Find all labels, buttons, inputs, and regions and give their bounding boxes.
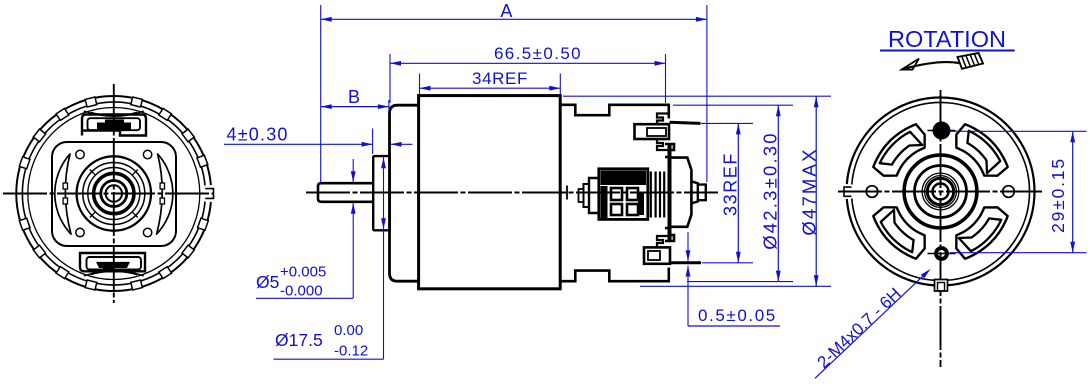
centerline vertical (right view) — [940, 90, 942, 367]
top terminal — [635, 124, 670, 139]
svg-text:Ø5: Ø5 — [256, 272, 279, 292]
dimension Ø47MAX — [563, 96, 831, 286]
svg-text:+0.005: +0.005 — [280, 264, 326, 281]
inner circle — [852, 102, 1030, 280]
ring tick marks — [133, 170, 138, 175]
screw boss circles — [76, 150, 84, 158]
dimension Ø5 — [256, 159, 356, 300]
svg-text:4±0.30: 4±0.30 — [227, 125, 289, 145]
svg-text:-0.12: -0.12 — [334, 343, 368, 360]
left kidney slot — [55, 154, 71, 234]
right view: motor rear face — [838, 90, 1042, 367]
bracket arcs above/below terminal blocks — [84, 111, 144, 116]
rear boss step1 — [672, 158, 692, 227]
shaft — [318, 183, 373, 202]
svg-text:0.00: 0.00 — [334, 322, 363, 339]
dimension 0.5±0.05 — [686, 232, 780, 326]
top terminal block — [82, 115, 146, 136]
bottom key feature — [935, 280, 948, 292]
bottom bumps — [657, 236, 669, 247]
ROTATION label — [880, 26, 1015, 52]
svg-text:Ø17.5: Ø17.5 — [275, 330, 323, 350]
svg-text:34REF: 34REF — [472, 69, 528, 88]
dimension B — [321, 87, 389, 113]
slot notches — [63, 183, 67, 189]
outer circle — [847, 97, 1035, 285]
dimension 34REF — [420, 69, 561, 94]
rear bearing rings — [904, 155, 977, 228]
rear boss step2 — [691, 181, 697, 203]
svg-text:33REF: 33REF — [721, 152, 741, 216]
brush card cluster — [599, 169, 648, 220]
dimension 29±0.15 — [950, 131, 1087, 252]
centerline vertical (left view) — [113, 84, 115, 303]
centerline horizontal (left view) — [3, 193, 213, 195]
front bell — [390, 105, 419, 281]
rear bell outline — [561, 105, 669, 119]
svg-text:29±0.15: 29±0.15 — [1048, 157, 1068, 233]
bottom terminal block — [80, 253, 145, 271]
svg-text:B: B — [348, 87, 360, 107]
laminations — [650, 172, 652, 218]
collar boss — [373, 156, 390, 230]
right kidney slot — [157, 154, 173, 234]
side hole left — [866, 186, 878, 198]
brush card hatch — [589, 178, 598, 213]
svg-text:0.5±0.05: 0.5±0.05 — [698, 306, 777, 325]
side view: motor — [306, 96, 718, 289]
dimension A — [321, 1, 707, 183]
svg-text:A: A — [500, 1, 512, 21]
end-cap rounded square — [52, 142, 176, 246]
9 o'clock tab — [844, 187, 852, 196]
bottom terminal — [644, 247, 670, 263]
left view: motor front face — [3, 84, 214, 303]
rear boss tip — [698, 185, 706, 201]
svg-text:Ø47MAX: Ø47MAX — [799, 147, 820, 235]
svg-text:66.5±0.50: 66.5±0.50 — [494, 44, 582, 63]
side hole right — [1003, 186, 1015, 198]
outer can circle — [16, 96, 211, 291]
svg-text:ROTATION: ROTATION — [888, 26, 1006, 52]
rear face — [668, 144, 672, 241]
dimension 33REF — [701, 123, 753, 262]
svg-text:Ø42.3±0.30: Ø42.3±0.30 — [760, 131, 781, 250]
inner can circle — [22, 102, 205, 285]
bearing rings — [77, 156, 151, 230]
dimension 66.5±0.50 — [390, 44, 666, 103]
top terminal tab — [670, 122, 701, 123]
crimp ring circle — [28, 108, 200, 280]
dimension Ø42.3±0.30 — [673, 105, 793, 281]
crimp tabs ring — [197, 155, 208, 167]
bottom terminal tab — [670, 261, 702, 264]
rotation arrow — [902, 53, 984, 70]
centerline horizontal (right view) — [838, 191, 1042, 193]
dimension Ø17.5 — [274, 157, 386, 360]
mounting hole top (M4) — [933, 122, 949, 138]
crimp tab at 3 o'clock — [205, 189, 213, 199]
vent slots — [956, 124, 1007, 175]
label 2-M4x0.7 - 6H — [814, 269, 931, 378]
top bumps — [657, 114, 669, 125]
can body — [419, 96, 561, 289]
svg-text:-0.000: -0.000 — [280, 283, 323, 300]
dimension 4±0.30 — [224, 125, 413, 155]
centerline horizontal (side view) — [306, 192, 718, 194]
rear ears — [665, 144, 674, 157]
mounting hole bottom (M4) — [936, 248, 947, 259]
